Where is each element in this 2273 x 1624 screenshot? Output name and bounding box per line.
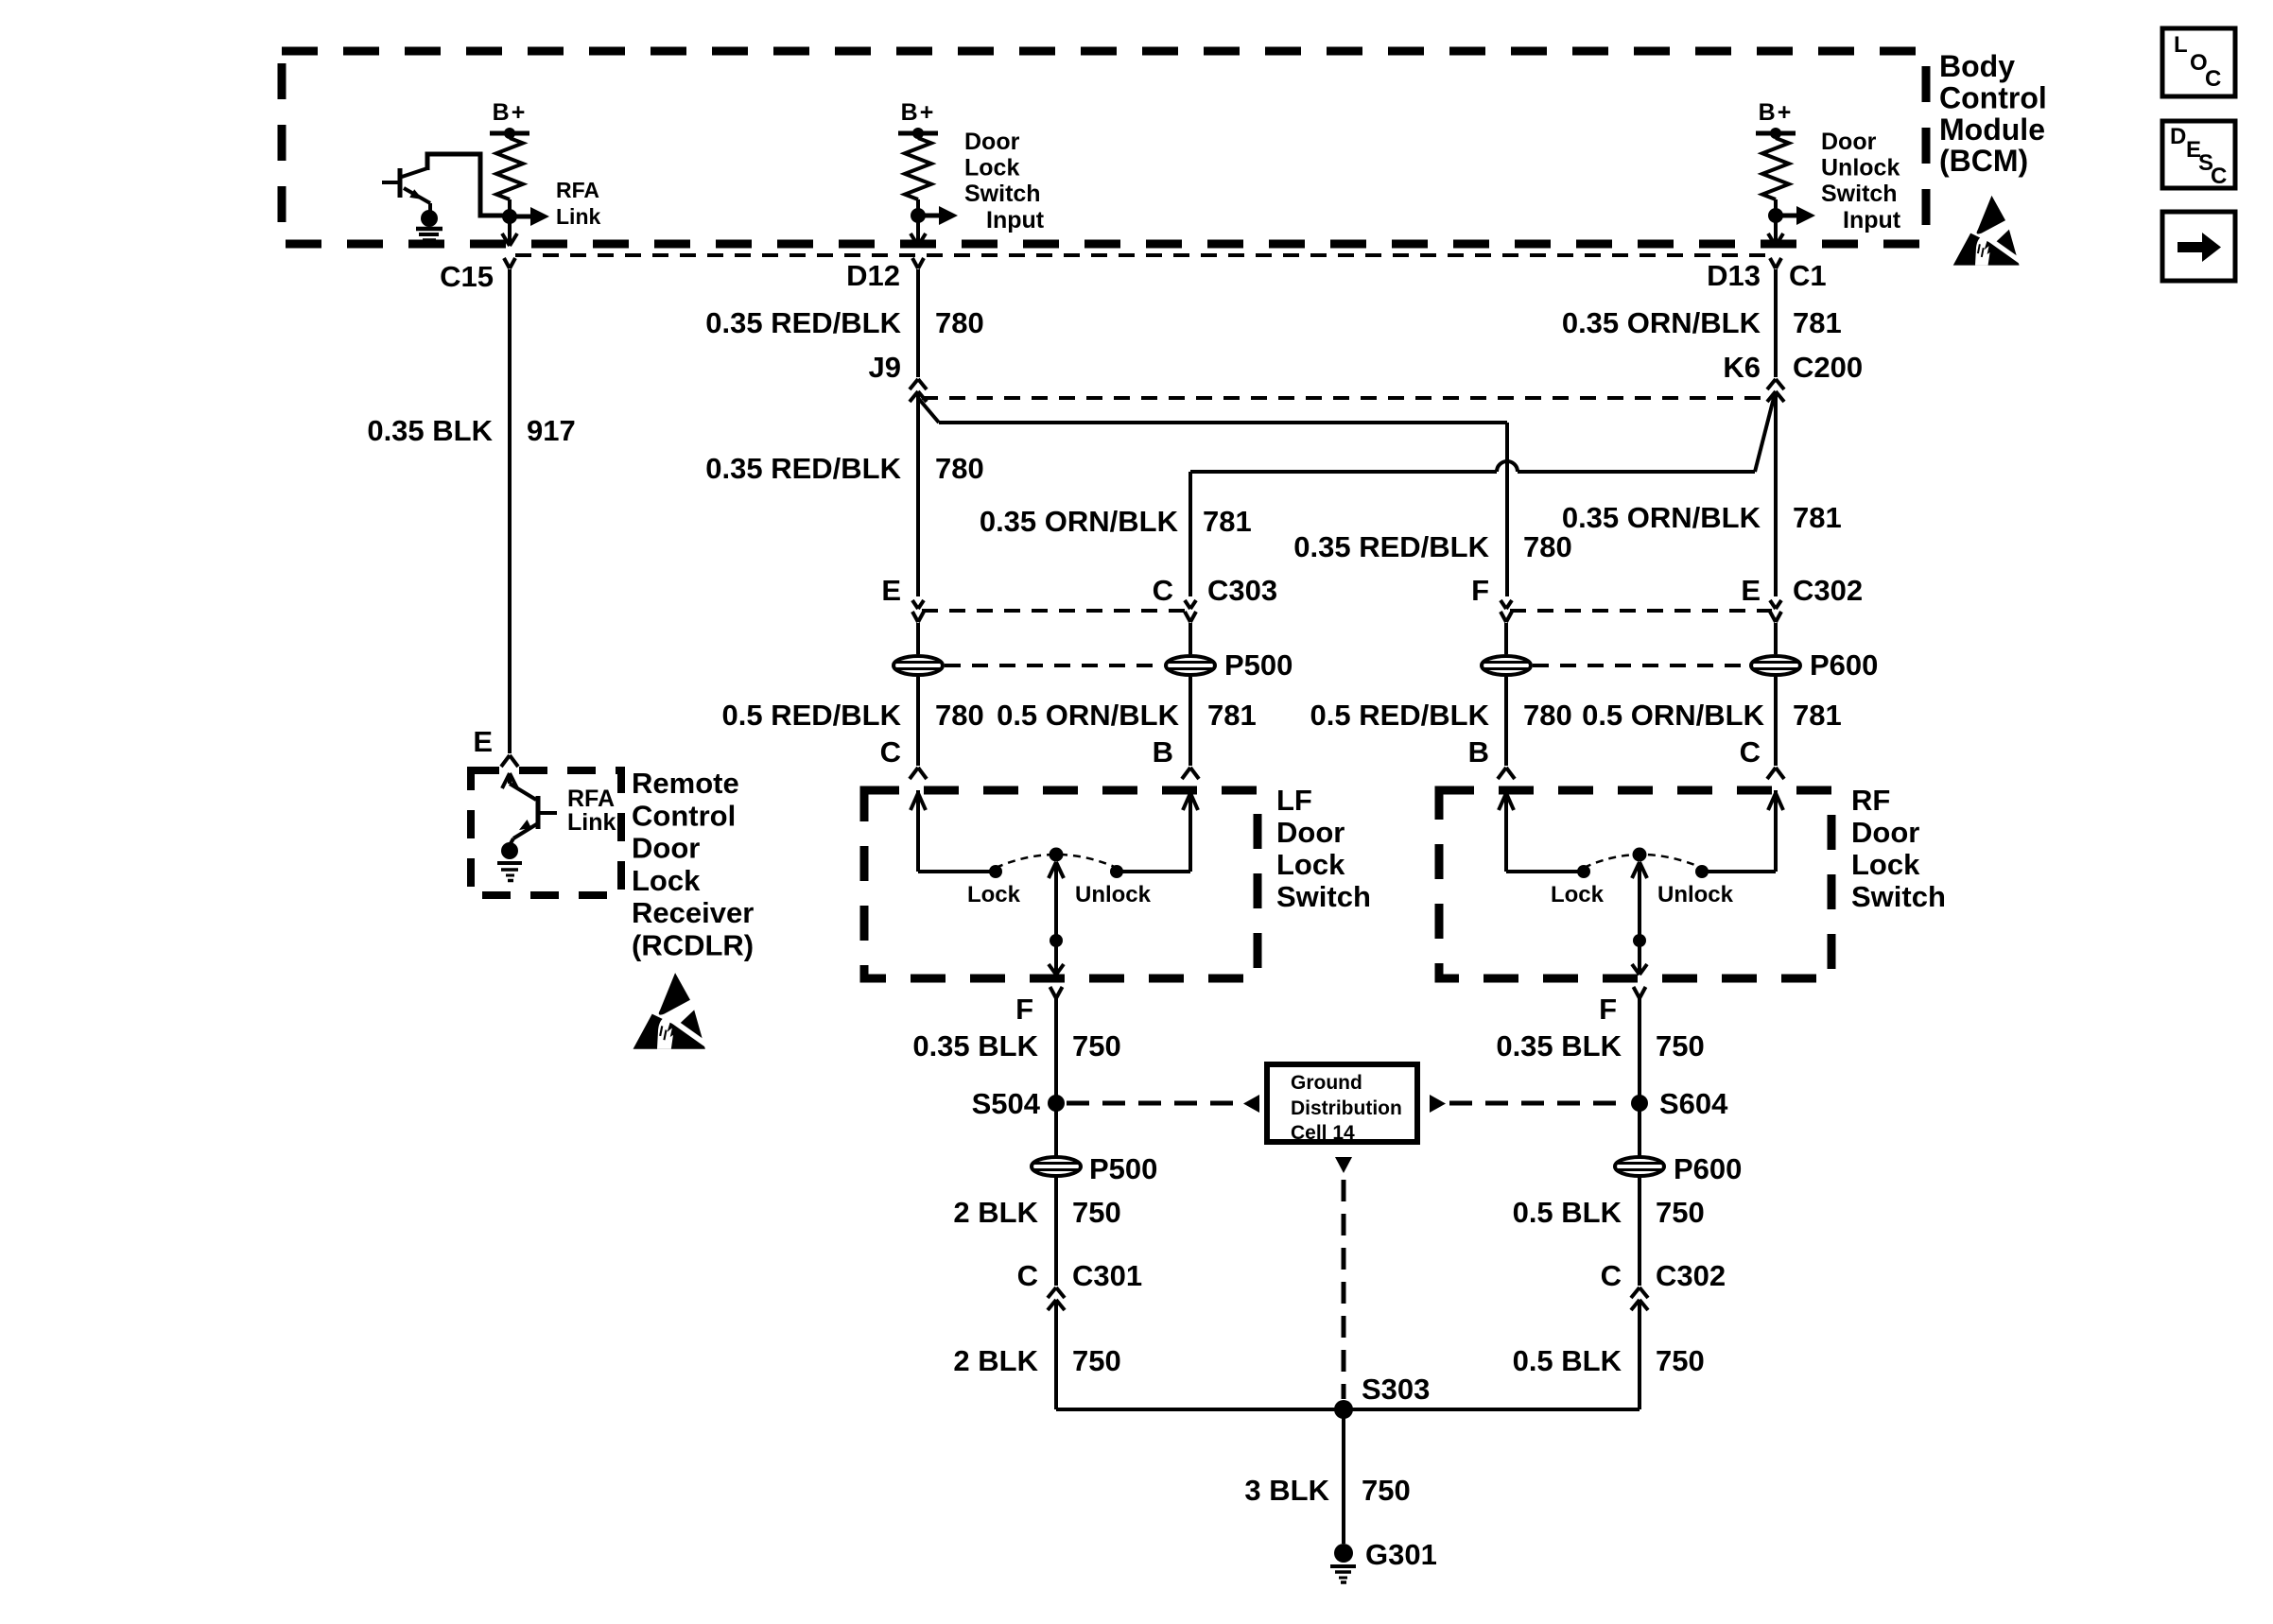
svg-text:Remote: Remote xyxy=(632,767,739,800)
svg-text:RFA: RFA xyxy=(567,786,615,812)
svg-text:Control: Control xyxy=(1939,80,2047,114)
svg-text:Switch: Switch xyxy=(964,181,1041,207)
svg-text:B+: B+ xyxy=(1759,99,1794,126)
svg-text:J9: J9 xyxy=(869,351,901,384)
svg-text:K6: K6 xyxy=(1723,351,1761,384)
svg-text:S504: S504 xyxy=(972,1087,1041,1120)
svg-text:Unlock: Unlock xyxy=(1821,155,1900,181)
svg-text:750: 750 xyxy=(1362,1474,1411,1507)
svg-text:F: F xyxy=(1471,574,1489,607)
svg-text:P600: P600 xyxy=(1674,1152,1742,1185)
svg-text:0.35 BLK: 0.35 BLK xyxy=(1496,1029,1622,1063)
svg-text:780: 780 xyxy=(935,452,984,485)
svg-text:0.5 BLK: 0.5 BLK xyxy=(1513,1344,1622,1377)
svg-text:780: 780 xyxy=(935,699,984,732)
svg-text:781: 781 xyxy=(1793,306,1842,339)
svg-text:Door: Door xyxy=(1851,816,1919,849)
svg-text:C302: C302 xyxy=(1793,574,1863,607)
svg-text:Input: Input xyxy=(986,207,1045,233)
svg-text:750: 750 xyxy=(1072,1196,1121,1229)
svg-text:Cell 14: Cell 14 xyxy=(1291,1122,1355,1144)
svg-text:C303: C303 xyxy=(1207,574,1277,607)
svg-text:Lock: Lock xyxy=(967,882,1021,907)
svg-text:Door: Door xyxy=(1821,129,1877,155)
svg-text:L: L xyxy=(2174,32,2188,58)
svg-text:C15: C15 xyxy=(440,260,494,293)
svg-text:B: B xyxy=(1468,735,1489,769)
svg-text:0.5 ORN/BLK: 0.5 ORN/BLK xyxy=(1582,699,1765,732)
svg-text:Link: Link xyxy=(556,204,600,229)
svg-text:0.5 RED/BLK: 0.5 RED/BLK xyxy=(722,699,902,732)
svg-text:B+: B+ xyxy=(493,99,528,126)
svg-text:C200: C200 xyxy=(1793,351,1863,384)
svg-text:P500: P500 xyxy=(1089,1152,1157,1185)
svg-text:Switch: Switch xyxy=(1276,880,1371,913)
svg-text:781: 781 xyxy=(1793,699,1842,732)
svg-text:C1: C1 xyxy=(1789,259,1827,292)
svg-text:LF: LF xyxy=(1276,784,1312,817)
svg-text:0.35 BLK: 0.35 BLK xyxy=(367,414,493,447)
svg-text:C: C xyxy=(880,735,901,769)
svg-text:0.35 RED/BLK: 0.35 RED/BLK xyxy=(1293,530,1489,563)
svg-text:P500: P500 xyxy=(1224,648,1293,682)
svg-text:C: C xyxy=(1017,1259,1038,1292)
svg-text:750: 750 xyxy=(1656,1196,1705,1229)
svg-text:Link: Link xyxy=(567,809,616,836)
svg-text:781: 781 xyxy=(1203,505,1252,538)
svg-text:Receiver: Receiver xyxy=(632,896,754,929)
svg-text:C: C xyxy=(2211,164,2227,189)
svg-text:F: F xyxy=(1015,993,1033,1026)
svg-text:917: 917 xyxy=(527,414,576,447)
svg-text:Unlock: Unlock xyxy=(1075,882,1152,907)
svg-text:S604: S604 xyxy=(1659,1087,1728,1120)
svg-text:Unlock: Unlock xyxy=(1657,882,1734,907)
svg-text:Lock: Lock xyxy=(632,864,701,897)
svg-text:Input: Input xyxy=(1843,207,1901,233)
svg-text:0.35 ORN/BLK: 0.35 ORN/BLK xyxy=(1562,501,1761,534)
svg-text:Lock: Lock xyxy=(1276,848,1345,881)
svg-text:RFA: RFA xyxy=(556,178,599,202)
svg-text:D: D xyxy=(2170,124,2186,149)
svg-text:780: 780 xyxy=(1523,699,1572,732)
svg-text:750: 750 xyxy=(1656,1344,1705,1377)
svg-text:RF: RF xyxy=(1851,784,1890,817)
svg-text:C: C xyxy=(1601,1259,1622,1292)
svg-text:Switch: Switch xyxy=(1821,181,1898,207)
svg-text:0.35 ORN/BLK: 0.35 ORN/BLK xyxy=(1562,306,1761,339)
svg-text:750: 750 xyxy=(1656,1029,1705,1063)
svg-text:Module: Module xyxy=(1939,112,2045,147)
svg-text:F: F xyxy=(1599,993,1617,1026)
svg-text:Switch: Switch xyxy=(1851,880,1946,913)
svg-text:780: 780 xyxy=(1523,530,1572,563)
svg-text:0.35 ORN/BLK: 0.35 ORN/BLK xyxy=(980,505,1179,538)
svg-text:D12: D12 xyxy=(846,259,900,292)
svg-text:2 BLK: 2 BLK xyxy=(953,1344,1038,1377)
svg-text:2 BLK: 2 BLK xyxy=(953,1196,1038,1229)
svg-text:Control: Control xyxy=(632,799,736,832)
svg-text:C: C xyxy=(1740,735,1761,769)
svg-text:(RCDLR): (RCDLR) xyxy=(632,929,754,962)
svg-text:E: E xyxy=(1741,574,1761,607)
svg-text:0.5 ORN/BLK: 0.5 ORN/BLK xyxy=(997,699,1180,732)
svg-text:D13: D13 xyxy=(1707,259,1761,292)
svg-text:(BCM): (BCM) xyxy=(1939,144,2028,178)
svg-text:E: E xyxy=(473,725,493,758)
svg-text:Lock: Lock xyxy=(964,155,1019,181)
svg-text:0.35 RED/BLK: 0.35 RED/BLK xyxy=(705,306,901,339)
svg-text:0.35 BLK: 0.35 BLK xyxy=(912,1029,1038,1063)
svg-text:0.5 BLK: 0.5 BLK xyxy=(1513,1196,1622,1229)
svg-text:Door: Door xyxy=(1276,816,1345,849)
svg-text:P600: P600 xyxy=(1810,648,1878,682)
svg-text:Ground: Ground xyxy=(1291,1072,1362,1094)
svg-text:Body: Body xyxy=(1939,49,2015,83)
svg-text:Distribution: Distribution xyxy=(1291,1097,1402,1119)
svg-text:Door: Door xyxy=(632,832,700,865)
svg-text:C: C xyxy=(1153,574,1173,607)
svg-text:C302: C302 xyxy=(1656,1259,1726,1292)
svg-text:781: 781 xyxy=(1207,699,1257,732)
svg-text:S303: S303 xyxy=(1362,1373,1430,1406)
svg-text:C301: C301 xyxy=(1072,1259,1142,1292)
svg-text:750: 750 xyxy=(1072,1344,1121,1377)
svg-text:B: B xyxy=(1153,735,1173,769)
svg-text:C: C xyxy=(2205,66,2221,92)
svg-text:3 BLK: 3 BLK xyxy=(1244,1474,1329,1507)
svg-text:Lock: Lock xyxy=(1551,882,1605,907)
svg-text:781: 781 xyxy=(1793,501,1842,534)
svg-text:G301: G301 xyxy=(1365,1538,1437,1571)
svg-text:Lock: Lock xyxy=(1851,848,1920,881)
svg-text:Door: Door xyxy=(964,129,1020,155)
svg-text:0.35 RED/BLK: 0.35 RED/BLK xyxy=(705,452,901,485)
svg-text:750: 750 xyxy=(1072,1029,1121,1063)
svg-text:E: E xyxy=(881,574,901,607)
svg-text:0.5 RED/BLK: 0.5 RED/BLK xyxy=(1310,699,1490,732)
svg-text:780: 780 xyxy=(935,306,984,339)
svg-text:B+: B+ xyxy=(901,99,936,126)
